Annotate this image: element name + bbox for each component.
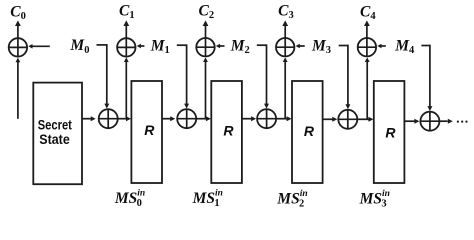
wire: initial keystream line up into Y0 (16, 58, 21, 119)
wire: M4 into Y4 (377, 44, 386, 49)
wire: Y4 output up to C4 (364, 20, 370, 37)
XOR adder X5 on state line (420, 112, 439, 131)
wire: Y0 output up to C0 (15, 20, 21, 37)
svg-text:MSin0: MSin0 (114, 189, 145, 209)
wire: M0 into Y0 (28, 44, 50, 49)
XOR adder Y3 producing C3 (276, 38, 294, 56)
XOR adder X4 on state line (338, 110, 357, 129)
wire: M3 elbow down into X4 (339, 45, 351, 110)
XOR adder X3 on state line (257, 109, 276, 128)
wire: Y1 output up to C1 (123, 20, 129, 37)
wire: M2 into Y2 (216, 44, 225, 49)
wire: keystream tap up into Y4 (365, 57, 370, 118)
svg-text:R: R (304, 123, 315, 139)
wire: X5 output to continuation dots (440, 119, 453, 124)
wire: M1 into Y1 (137, 44, 145, 49)
XOR adder Y1 producing C1 (117, 38, 135, 56)
svg-text:M0: M0 (69, 37, 89, 56)
secret state box S (33, 83, 82, 185)
svg-text:C0: C0 (10, 4, 26, 23)
XOR adder Y4 producing C4 (358, 38, 376, 56)
svg-text:C1: C1 (119, 3, 135, 22)
wire: M1 elbow down into X2 (177, 44, 189, 108)
wire: R4 to X5 (404, 119, 419, 124)
wire: R2 to X3 (242, 116, 256, 121)
wire: M0 elbow down into X1 (97, 44, 110, 109)
wire: X1 to R1 (118, 116, 131, 121)
wire: keystream tap up into Y1 (124, 57, 129, 118)
wire: Y3 output up to C3 (282, 20, 288, 37)
wire: keystream tap up into Y2 (203, 57, 208, 118)
wire: R3 to X4 (322, 117, 337, 122)
svg-text:M1: M1 (150, 37, 170, 56)
XOR adder X1 on state line (99, 109, 118, 128)
round function box R4 (374, 81, 405, 183)
svg-text:R: R (223, 123, 234, 139)
wire: M2 elbow down into X3 (257, 44, 269, 108)
wire: X4 to R4 (358, 117, 374, 122)
svg-text:MSin2: MSin2 (276, 189, 307, 208)
svg-text:C2: C2 (199, 3, 215, 22)
svg-text:Secret: Secret (38, 117, 72, 133)
round function box R3 (292, 81, 323, 183)
XOR adder Y2 producing C2 (196, 38, 214, 56)
wire: keystream tap up into Y3 (283, 57, 288, 118)
wire: Y2 output up to C2 (203, 20, 209, 37)
svg-text:M4: M4 (394, 38, 415, 57)
wire: X2 to R2 (197, 116, 211, 121)
svg-text:MSin1: MSin1 (192, 189, 223, 208)
XOR adder X2 on state line (177, 109, 196, 128)
svg-text:C4: C4 (360, 3, 376, 22)
svg-text:M2: M2 (230, 37, 250, 56)
continuation ellipsis (457, 121, 468, 123)
svg-text:M3: M3 (311, 38, 331, 57)
round function box R1 (131, 81, 162, 183)
XOR adder Y0 producing C0 (9, 38, 27, 56)
wire: M4 elbow down into X5 (421, 45, 432, 111)
svg-text:State: State (39, 131, 70, 147)
round function box R2 (211, 81, 242, 183)
svg-text:R: R (144, 122, 155, 138)
wire: secret state output to X1 (82, 116, 96, 121)
wire: X3 to R3 (277, 116, 292, 121)
svg-text:C3: C3 (278, 3, 294, 22)
svg-text:R: R (385, 124, 396, 140)
svg-text:MSin3: MSin3 (359, 189, 390, 208)
wire: R1 to X2 (162, 116, 175, 121)
wire: M3 into Y3 (296, 44, 305, 49)
